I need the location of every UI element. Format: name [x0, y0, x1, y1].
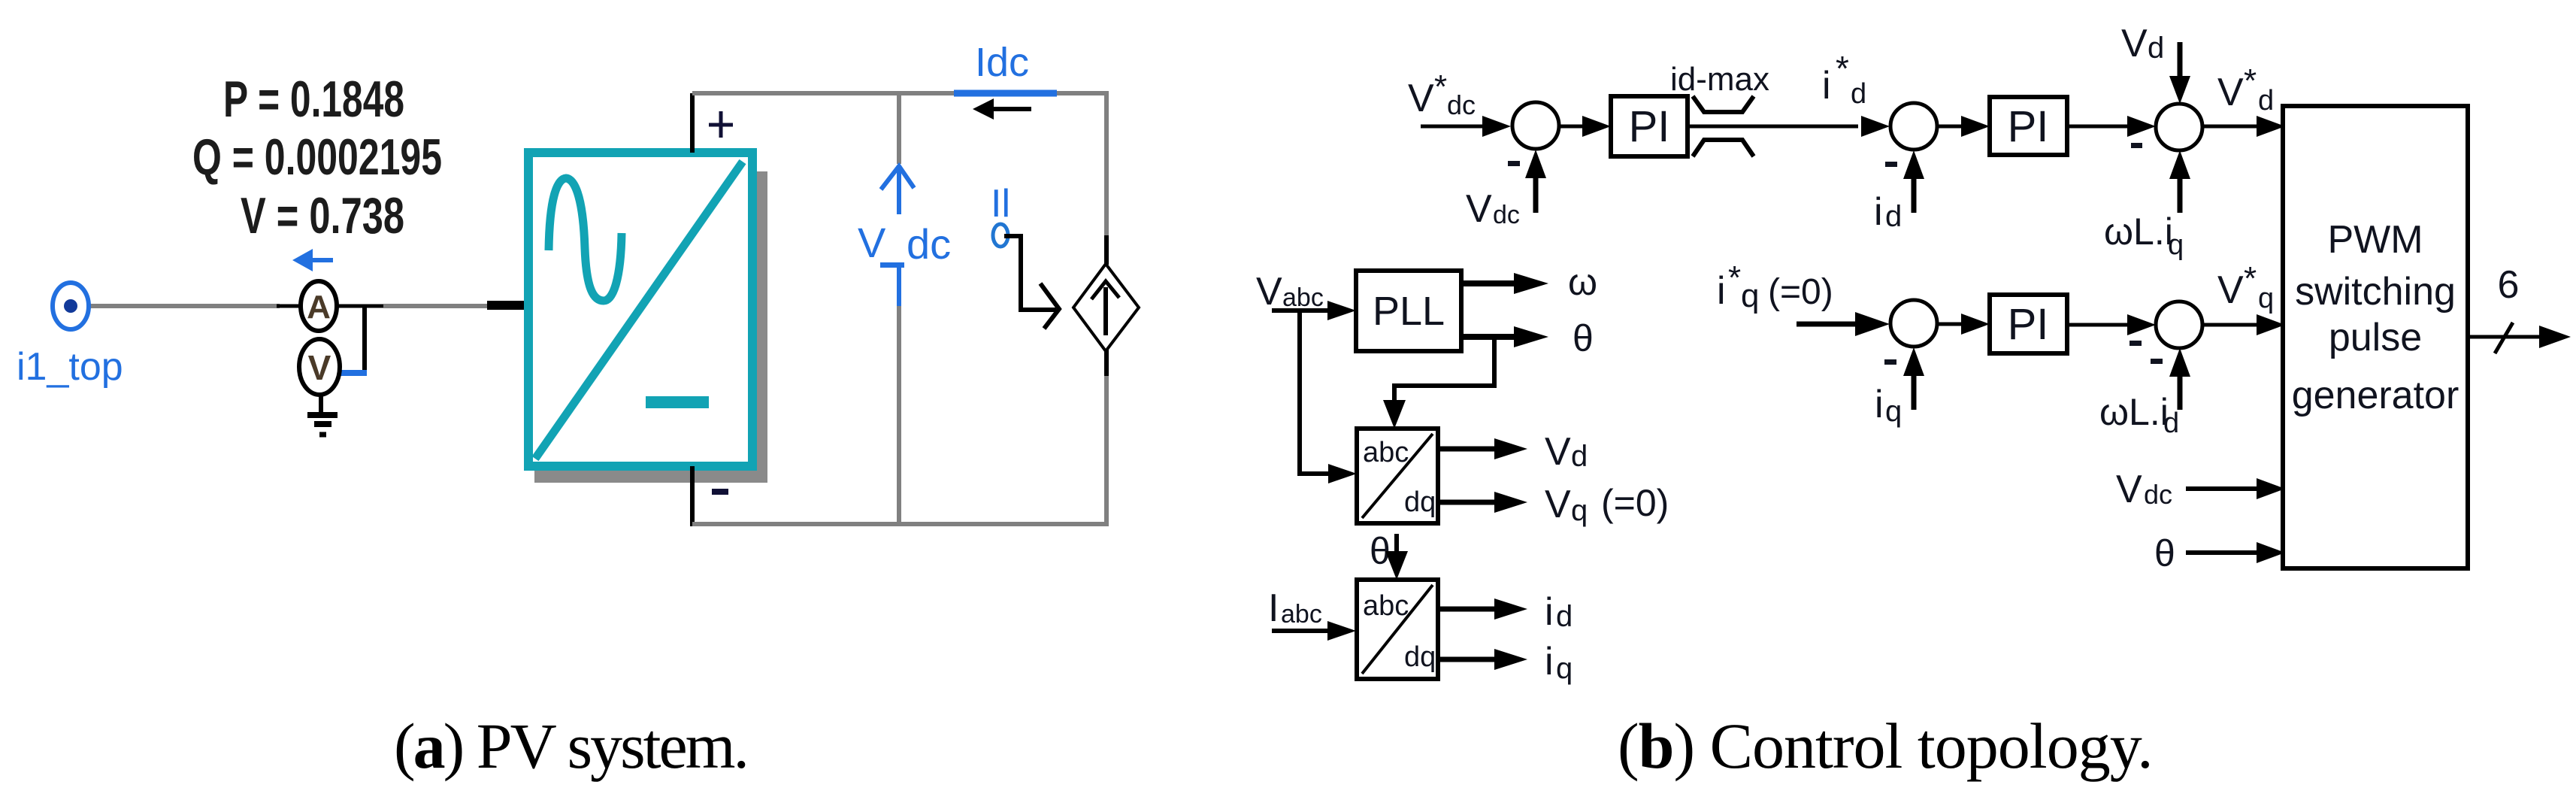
svg-text:(a) PV system.: (a) PV system.: [394, 710, 747, 782]
arrow wLiq up into S4: [2169, 150, 2190, 213]
svg-text:V: V: [308, 348, 331, 387]
PWM output arrow: [2468, 326, 2571, 348]
label wL.id: [2099, 391, 2179, 439]
PLL block: [1356, 271, 1461, 351]
wire: top gray bus: [692, 91, 1109, 95]
arrow S2 to PI2: [1937, 116, 1990, 137]
svg-text:A: A: [307, 289, 331, 326]
svg-text:PI: PI: [2008, 102, 2049, 151]
inverter box shadow: [534, 171, 767, 483]
svg-text:dc: dc: [907, 220, 951, 268]
summing junction S3: [1890, 300, 1937, 347]
svg-text:*: *: [1434, 68, 1447, 105]
svg-text:(=0): (=0): [1601, 482, 1669, 524]
svg-text:abc: abc: [1363, 437, 1409, 468]
svg-text:q: q: [1556, 652, 1573, 685]
svg-text:Il: Il: [991, 182, 1010, 226]
label i*d: [1822, 49, 1866, 110]
wire: blue link voltmeter to junction: [340, 370, 367, 376]
arrow S4 to PWM: [2202, 116, 2285, 137]
svg-text:dc: dc: [1493, 201, 1520, 229]
label V_dc: [858, 219, 951, 268]
wire: Idc blue overlay segment: [954, 90, 1057, 97]
svg-text:abc: abc: [1281, 600, 1322, 629]
arrow Vq out of T1: [1438, 492, 1527, 513]
wire: gray from junction to inverter stub: [383, 304, 490, 308]
svg-text:V: V: [1545, 430, 1571, 474]
svg-text:6: 6: [2498, 263, 2520, 307]
label wL.iq: [2104, 211, 2184, 261]
inverter sine glyph: [549, 178, 622, 301]
svg-text:q: q: [2258, 283, 2274, 314]
svg-text:I: I: [1268, 586, 1279, 630]
summing junction S1: [1512, 102, 1559, 149]
minus pair at S5: [2130, 341, 2163, 364]
svg-text:P = 0.1848: P = 0.1848: [223, 71, 404, 128]
label Vdc feedback: [1466, 187, 1520, 231]
svg-text:Q = 0.0002195: Q = 0.0002195: [192, 129, 442, 186]
label V*dc: [1408, 68, 1476, 120]
arrow Iabc into T2: [1272, 621, 1356, 641]
PI controller PI2: [1990, 97, 2067, 155]
node i1_top source terminal: [53, 283, 89, 329]
arrow Vd out of T1: [1438, 438, 1527, 459]
label id feedback: [1874, 190, 1902, 234]
PWM switching pulse generator box: [2283, 106, 2468, 568]
svg-text:V: V: [1408, 77, 1434, 120]
arrow Vd down into S4: [2169, 42, 2190, 104]
arrow S5 to PWM: [2202, 314, 2285, 335]
svg-text:V: V: [2217, 71, 2244, 114]
svg-text:(b) Control topology.: (b) Control topology.: [1618, 710, 2153, 782]
svg-text:switching: switching: [2295, 270, 2456, 314]
svg-text:*: *: [2244, 260, 2257, 297]
svg-text:*: *: [1836, 49, 1849, 88]
svg-text:d: d: [1851, 78, 1866, 110]
arrow PLL theta out: [1461, 326, 1548, 347]
svg-text:abc: abc: [1282, 283, 1324, 312]
svg-text:i: i: [1875, 383, 1884, 426]
PI controller PI1: [1611, 96, 1688, 156]
arrow theta into PWM: [2186, 542, 2285, 563]
label Vd feedforward: [2121, 22, 2164, 65]
svg-text:V: V: [2217, 268, 2244, 312]
blue current direction arrow above ammeter: [292, 249, 333, 271]
svg-text:dc: dc: [2144, 479, 2172, 510]
svg-text:i: i: [1874, 190, 1883, 234]
label Vq (=0): [1545, 482, 1669, 527]
svg-text:Idc: Idc: [975, 40, 1029, 85]
svg-text:q: q: [1741, 277, 1759, 314]
Idc black arrow: [973, 98, 1031, 120]
svg-text:i: i: [1545, 640, 1554, 683]
svg-text:generator: generator: [2292, 374, 2459, 417]
wire: black stub box bottom: [690, 466, 695, 526]
minus at S1: [1508, 161, 1520, 166]
wire: left vertical gray lower: [897, 306, 901, 526]
PI controller PI3: [1990, 295, 2067, 353]
plus label: [709, 111, 733, 138]
abc-dq transform T1: [1357, 429, 1438, 523]
svg-text:V: V: [858, 219, 886, 266]
svg-text:*: *: [1728, 259, 1741, 296]
svg-text:q: q: [1571, 494, 1588, 527]
inverter dc dash: [646, 396, 709, 408]
svg-text:ωL.i: ωL.i: [2104, 211, 2173, 253]
label Vabc: [1256, 270, 1324, 314]
arrow id into S2: [1903, 150, 1924, 213]
arrow Vabc into PLL: [1272, 301, 1356, 320]
label iq out: [1545, 640, 1573, 685]
svg-text:d: d: [1556, 600, 1573, 633]
svg-text:PI: PI: [2008, 300, 2049, 349]
inverter diagonal: [535, 162, 743, 459]
wire limiter to sum2 with arrow: [1688, 116, 1890, 137]
svg-text:V: V: [2121, 22, 2148, 65]
label P Q V monitor text: [192, 71, 442, 244]
ammeter A: [301, 281, 337, 331]
arrow iq into S3: [1903, 347, 1924, 410]
branch wire Vabc down to abc-dq1: [1300, 311, 1357, 483]
svg-text:i: i: [1822, 64, 1831, 108]
svg-text:abc: abc: [1363, 590, 1409, 622]
wire: left vertical gray upper: [897, 91, 901, 164]
wire: right vertical black above diamond: [1104, 235, 1109, 265]
svg-text:V: V: [1545, 483, 1571, 526]
label V*q: [2217, 260, 2274, 314]
voltmeter V: [299, 339, 340, 395]
svg-text:PLL: PLL: [1373, 289, 1445, 334]
arrow PLL omega out: [1461, 273, 1548, 294]
svg-text:d: d: [2163, 408, 2179, 439]
wire: black from ammeter to junction: [337, 305, 383, 308]
arrow Vdc into PWM: [2186, 478, 2285, 499]
label Iabc: [1268, 586, 1322, 630]
svg-text:*: *: [2244, 62, 2257, 99]
output slash: [2495, 323, 2513, 353]
svg-text:ω: ω: [1568, 261, 1597, 303]
svg-text:i: i: [1545, 590, 1554, 634]
svg-text:i1_top: i1_top: [17, 345, 123, 389]
Il terminal circle: [993, 224, 1008, 247]
wire: black stub into ammeter: [277, 305, 302, 308]
inverter input stub (thick black): [487, 301, 525, 310]
svg-text:dq: dq: [1404, 641, 1436, 673]
arrow theta into T2: [1385, 534, 1408, 580]
minus label: [712, 489, 728, 495]
limiter symbol: [1693, 96, 1754, 156]
V_dc annotation arrow: [881, 166, 914, 214]
wire: junction drop to voltmeter: [362, 306, 367, 374]
svg-text:d: d: [2258, 85, 2274, 117]
svg-text:PI: PI: [1629, 102, 1670, 151]
wire: right vertical black below diamond: [1104, 349, 1109, 377]
arrow PI2 to sum4: [2067, 116, 2156, 137]
wire theta branch into abc-dq1: [1383, 337, 1494, 429]
label Vdc into PWM: [2116, 468, 2172, 511]
svg-text:q: q: [1885, 395, 1902, 428]
current source diamond: [1073, 264, 1139, 351]
arrow iq out of T2: [1438, 649, 1527, 670]
svg-text:id-max: id-max: [1670, 61, 1769, 98]
wire: gray wire from source node to ammeter: [72, 304, 280, 308]
svg-text:V: V: [1466, 187, 1492, 231]
svg-text:q: q: [2168, 229, 2184, 261]
breaker step wire with arrow: [1004, 236, 1059, 329]
svg-text:V = 0.738: V = 0.738: [241, 187, 404, 244]
svg-text:V: V: [1256, 270, 1282, 314]
svg-text:PWM: PWM: [2327, 218, 2423, 262]
svg-text:i: i: [1717, 269, 1726, 313]
label i*q (=0): [1717, 259, 1833, 314]
svg-text:dc: dc: [1447, 89, 1476, 120]
arrow into sum1: [1421, 116, 1511, 137]
V_dc annotation lower tick: [897, 267, 901, 306]
svg-text:d: d: [1571, 440, 1588, 473]
label V*d: [2217, 62, 2274, 117]
minus at S4: [2131, 143, 2142, 148]
summing junction S5: [2156, 302, 2202, 348]
arrow id out of T2: [1438, 598, 1527, 620]
svg-text:(=0): (=0): [1768, 272, 1833, 312]
arrow S1 to PI1: [1559, 116, 1611, 137]
svg-text:θ: θ: [2154, 532, 2175, 574]
svg-text:d: d: [1885, 200, 1902, 233]
label Vd out: [1545, 430, 1588, 474]
ground: [307, 393, 338, 435]
summing junction S2: [1890, 103, 1937, 150]
svg-text:θ: θ: [1573, 317, 1594, 359]
inverter U1 box: [528, 153, 752, 466]
label iq feedback: [1875, 383, 1902, 428]
arrow S3 to PI3: [1937, 314, 1990, 335]
minus at S3: [1884, 359, 1896, 365]
abc-dq transform T2: [1357, 580, 1438, 679]
wire: black stub box top: [690, 93, 695, 153]
svg-text:dq: dq: [1404, 486, 1436, 518]
svg-text:ωL.i: ωL.i: [2099, 391, 2169, 433]
arrow wLid up into S5: [2169, 348, 2190, 410]
wire: bottom gray bus: [692, 522, 1109, 526]
wire: right vertical gray upper: [1104, 91, 1109, 238]
svg-text:pulse: pulse: [2329, 316, 2422, 359]
label id out: [1545, 590, 1573, 634]
summing junction S4: [2156, 104, 2202, 150]
svg-text:V: V: [2116, 468, 2142, 511]
wire: right vertical gray lower: [1104, 376, 1109, 526]
arrow Vdc into S1: [1525, 150, 1546, 213]
minus at S2: [1885, 162, 1897, 167]
arrow PI3 to sum5: [2067, 314, 2156, 335]
arrow into sum3: [1797, 312, 1890, 336]
svg-text:d: d: [2148, 32, 2164, 65]
